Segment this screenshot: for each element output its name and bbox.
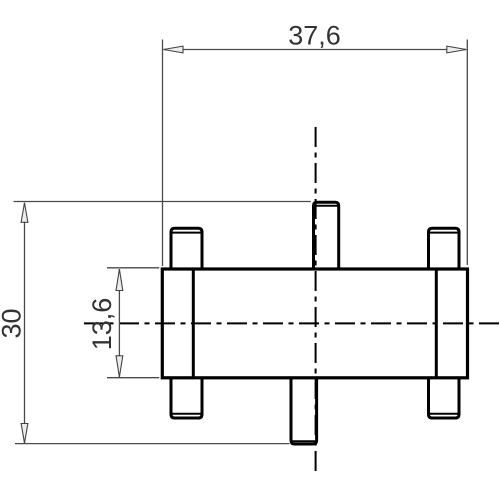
bottom center pin — [291, 377, 317, 444]
dimension 30 line — [24, 203, 26, 443]
top right tab — [429, 228, 460, 270]
svg-text:13,6: 13,6 — [87, 298, 117, 351]
dimension 13,6 extension line bottom — [107, 377, 159, 379]
dimension 13,6 down arrow — [116, 356, 123, 377]
dimension 37,6 extension line left — [162, 40, 164, 267]
right flange inner line — [435, 269, 438, 378]
vertical centerline — [315, 127, 317, 471]
left flange inner line — [192, 269, 195, 378]
top left tab — [171, 228, 202, 270]
bottom right tab — [429, 377, 460, 418]
dimension 13,6 up arrow — [116, 269, 123, 290]
dimension 30 up arrow — [21, 203, 28, 223]
dimension 37,6 left arrow — [164, 46, 184, 53]
dimension 37,6 extension line right — [466, 40, 468, 266]
dimension 13,6 line — [118, 269, 120, 377]
dimension 30 down arrow — [21, 424, 28, 444]
dimension 37,6 line — [164, 49, 467, 51]
svg-text:37,6: 37,6 — [288, 21, 341, 51]
top center pin — [314, 202, 339, 270]
dimension 13,6 extension line top — [107, 267, 159, 269]
dimension 30 extension line bottom — [15, 443, 290, 445]
dimension 30 extension line top — [14, 201, 311, 203]
body outline — [162, 269, 467, 378]
bottom left tab — [171, 377, 202, 418]
dimension 37,6 right arrow — [447, 46, 467, 53]
svg-text:30: 30 — [0, 308, 27, 338]
horizontal centerline — [84, 322, 500, 324]
